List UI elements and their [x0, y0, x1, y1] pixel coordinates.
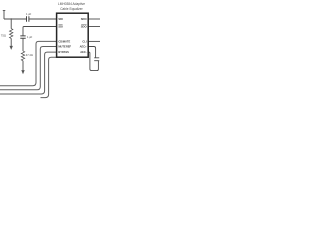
wire MUTEREF loop	[0, 47, 57, 90]
capacitor C1 4.7uF series plates	[27, 16, 29, 21]
wire SDObar out	[88, 26, 100, 28]
svg-text:SDO: SDO	[81, 25, 87, 29]
wire input vertical	[3, 11, 5, 20]
svg-text:AEC+: AEC+	[80, 45, 87, 49]
svg-text:MUTE REF: MUTE REF	[58, 45, 71, 49]
svg-text:75Ω: 75Ω	[1, 33, 6, 37]
svg-text:CLI: CLI	[82, 40, 86, 44]
svg-text:SDI: SDI	[58, 25, 63, 29]
wire CD/MUTE loop	[0, 41, 57, 85]
capacitor C2 4.7uF plates	[20, 36, 25, 38]
wire SDIbar from IC	[23, 27, 57, 36]
svg-text:1 µF: 1 µF	[26, 12, 32, 16]
resistor R1 75 ohm	[10, 29, 13, 39]
op-amp U1 LMH0384 IC box	[57, 13, 89, 57]
wire CLI out	[88, 40, 100, 42]
wire BYPASS loop	[0, 52, 57, 94]
wire top to series cap	[4, 18, 26, 20]
svg-text:BYPASS: BYPASS	[58, 50, 69, 54]
resistor R2 37.4 ohm	[21, 51, 24, 61]
svg-text:SDI: SDI	[58, 17, 63, 21]
capacitor C3 AEC plates	[94, 58, 99, 61]
ground arrow 1	[10, 46, 13, 50]
wire SDO out	[88, 18, 100, 20]
svg-text:37.4Ω: 37.4Ω	[26, 53, 33, 57]
wire GND loop	[41, 57, 57, 97]
wire 75 ohm drop	[10, 19, 12, 29]
node junction input/R1	[11, 18, 12, 19]
ground arrow 2	[21, 70, 24, 74]
svg-text:SDO: SDO	[81, 17, 87, 21]
input terminal	[3, 10, 6, 12]
wire cap C2 to R2	[22, 38, 24, 51]
svg-text:Cable Equalizer: Cable Equalizer	[60, 7, 83, 11]
svg-text:LMH0384 Adaptive: LMH0384 Adaptive	[58, 2, 85, 6]
svg-text:CD/MUTE: CD/MUTE	[58, 40, 70, 44]
wire AEC- loop to cap bottom	[88, 52, 98, 71]
wire resistor to ground arrow	[10, 38, 12, 46]
wire R2 to ground arrow	[22, 61, 24, 70]
svg-text:AEC-: AEC-	[80, 50, 86, 54]
wire series cap to SDI pin	[29, 18, 57, 20]
wire AEC+ to cap	[88, 47, 95, 58]
svg-text:1 µF: 1 µF	[27, 35, 33, 39]
